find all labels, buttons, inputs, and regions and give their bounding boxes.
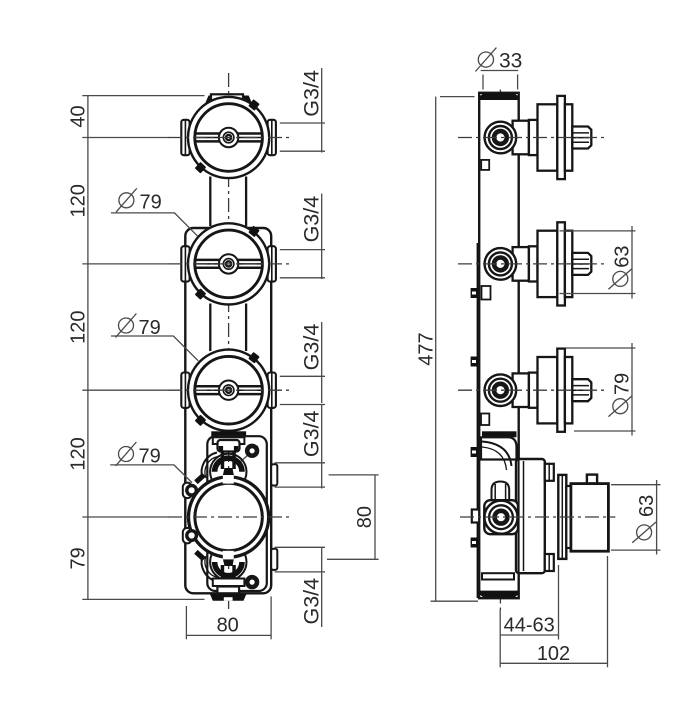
valve 3 horizontal centerline: [168, 389, 290, 391]
G3/4 label port 4: [299, 410, 323, 457]
svg-text:120: 120: [67, 437, 89, 470]
side cartridge valve 3: [485, 349, 592, 432]
thermostat lower collar: [213, 579, 245, 587]
thermostat knob (side): [571, 484, 609, 552]
side vertical centerline: [499, 90, 501, 611]
ext line valve 2 center: [82, 263, 169, 265]
svg-text:G3/4: G3/4: [299, 70, 323, 117]
dim dia63 thermostat side: [656, 480, 658, 555]
valve 2 handle: [181, 223, 276, 304]
valve 3 handle: [181, 350, 276, 431]
thermostat upper stem blob: [222, 468, 234, 478]
svg-text:79: 79: [140, 192, 162, 214]
ext line top of valve 1: [82, 95, 204, 97]
svg-text:63: 63: [611, 245, 633, 267]
wire: pipe column between valve 2 and valve 3: [209, 304, 211, 352]
upper left shoulder arc: [202, 453, 217, 479]
mounting body (front): [185, 228, 271, 593]
svg-text:120: 120: [67, 311, 89, 344]
G3/4 dim line port 2: [321, 194, 323, 280]
thermo cartridge bell (side): [492, 482, 510, 503]
svg-text:44-63: 44-63: [504, 615, 555, 637]
valve 2 horizontal centerline: [168, 263, 290, 265]
label dia63 valve 2 side: [608, 245, 633, 289]
svg-text:80: 80: [354, 506, 376, 528]
thermostat upper collar: [213, 437, 245, 444]
ear wedge lower: [194, 550, 206, 561]
dim 102: [500, 662, 607, 664]
front vertical centerline: [228, 73, 230, 609]
dim 80 bottom: [186, 634, 271, 636]
valve 1 top cap plug: [211, 94, 243, 101]
valve 1 side centerline: [458, 137, 604, 139]
G3/4 label port 2: [299, 196, 323, 243]
thermostat bore outer circle: [189, 477, 269, 557]
dim text 120 c: [67, 437, 89, 470]
bottom outlet foot notch: [224, 597, 233, 601]
bottom outlet stub: [217, 587, 239, 594]
svg-text:79: 79: [67, 547, 89, 569]
label dia79 valve 4: [110, 442, 192, 483]
dim text 477: [416, 332, 438, 365]
label dia79 valve 3 side: [608, 373, 633, 417]
ear screw lower: [187, 531, 197, 541]
wall clip 2 white square: [482, 286, 491, 300]
ext line valve 1 center: [82, 137, 169, 139]
dim 80 right vertical: [374, 475, 376, 559]
valve 1 top cap left wedge: [205, 96, 215, 107]
svg-text:79: 79: [611, 373, 633, 395]
wall clip 1 white: [481, 160, 489, 170]
lower housing step (side): [482, 573, 514, 579]
ear wedge upper: [194, 473, 206, 484]
upper stem guides: [221, 451, 225, 469]
dim dia63 valve 2 side: [631, 226, 633, 299]
thermostat lower bell dark ring: [215, 562, 242, 576]
svg-text:G3/4: G3/4: [299, 196, 323, 243]
thermostat flange plate (side): [558, 475, 566, 559]
dim text 120 a: [67, 184, 89, 217]
bore bottom stem notch: [223, 551, 234, 560]
G3/4 label port 3: [299, 324, 323, 371]
dim 44-63: [500, 634, 558, 636]
side cartridge valve 2: [485, 222, 592, 305]
ext line valve 3 center: [82, 389, 169, 391]
svg-text:102: 102: [537, 643, 570, 665]
housing waterway arcs (side): [482, 442, 512, 467]
thermostat collar dark band: [211, 431, 246, 437]
thermostat mixer body (side): [516, 459, 545, 573]
thermostat side centerline: [460, 516, 615, 518]
svg-text:80: 80: [217, 614, 239, 636]
screw upper right: [247, 446, 257, 456]
service stop upper (side): [545, 464, 554, 481]
wire: pipe column between valve 1 and valve 2: [209, 177, 211, 227]
wall clip 3 black: [471, 357, 478, 367]
thermostat lower stem blob: [222, 557, 234, 567]
service stop lower (side): [545, 554, 554, 571]
pipe bottom black cap: [480, 591, 519, 598]
label dia33 top: [475, 48, 522, 90]
wall clip 5 black: [471, 447, 478, 457]
G3/4 dim line port 5: [321, 547, 323, 627]
thermostat port bezel (side): [484, 500, 518, 534]
svg-text:40: 40: [67, 105, 89, 127]
svg-text:G3/4: G3/4: [299, 324, 323, 371]
screw lower right: [247, 577, 257, 587]
mixer body inner line: [523, 461, 525, 571]
label dia79 valve 3: [111, 314, 198, 361]
thermostat upper bell outer: [210, 454, 246, 490]
thermostat upper cap: [218, 440, 240, 452]
pipe top black cap: [480, 93, 519, 100]
lower stem guides: [221, 565, 225, 583]
valve 1 horizontal centerline: [168, 137, 290, 139]
port tab A right (G3/4 side port upper): [271, 464, 277, 485]
boss chamfer line upper right: [239, 446, 258, 463]
label dia63 thermostat side: [632, 495, 658, 543]
ext line body bottom: [82, 598, 204, 600]
svg-text:79: 79: [139, 445, 161, 467]
G3/4 dim line port 3: [321, 322, 323, 403]
pipe body (side): [479, 93, 519, 598]
valve 1 top cap right wedge: [243, 96, 253, 107]
dim text 80 right: [354, 506, 376, 528]
knob connector (side): [566, 486, 571, 548]
thermostat boss plate: [207, 436, 266, 591]
G3/4 dim line port 4: [321, 405, 323, 489]
inlet stub left (side): [472, 510, 479, 523]
thermostat upper bell dark ring: [215, 458, 242, 472]
G3/4 label port 1: [299, 70, 323, 117]
bottom outlet foot: [210, 594, 246, 601]
dim 477: [435, 97, 437, 602]
left dimension line chain: [87, 96, 89, 600]
side cartridge valve 1: [485, 96, 592, 179]
wall clip 2 black: [471, 288, 478, 298]
valve 3 side centerline: [458, 389, 604, 391]
G3/4 dim line port 1: [321, 68, 323, 153]
valve 2 side centerline: [458, 263, 604, 265]
thermostat port rings (side): [484, 501, 517, 534]
thermostat joint dark band (side): [482, 431, 517, 437]
svg-text:120: 120: [67, 184, 89, 217]
ext line valve 4 center: [82, 516, 169, 518]
port tab B right (G3/4 side port lower): [271, 549, 277, 570]
plate edge line through body: [518, 459, 520, 573]
mounting ear lower left: [183, 528, 192, 544]
thermostat bore inner circle: [195, 483, 262, 550]
dim text 40: [67, 105, 89, 127]
dim dia79 valve 3 side: [631, 343, 633, 436]
valve 1 handle: [181, 97, 276, 178]
svg-text:G3/4: G3/4: [299, 578, 323, 625]
svg-text:33: 33: [499, 50, 522, 73]
back plate edge strip: [477, 243, 480, 598]
ear screw upper: [187, 486, 197, 496]
G3/4 label port 5: [299, 578, 323, 625]
wall clip 4 white square: [481, 414, 489, 426]
thermostat housing top (side): [481, 437, 517, 459]
dim text 79: [67, 547, 89, 569]
bore top stem notch: [223, 475, 234, 484]
lower left shoulder arc: [202, 556, 217, 582]
dim text 120 b: [67, 311, 89, 344]
mounting ear upper left: [183, 483, 192, 499]
thermostat lower bell outer: [210, 544, 246, 580]
wall clip 6 black: [471, 538, 478, 548]
valve 4 horizontal centerline: [168, 516, 292, 518]
label dia79 valve 2: [111, 188, 198, 236]
knob top tab (side): [587, 475, 597, 484]
svg-text:477: 477: [416, 332, 438, 365]
svg-text:G3/4: G3/4: [299, 410, 323, 457]
svg-text:63: 63: [636, 495, 658, 517]
